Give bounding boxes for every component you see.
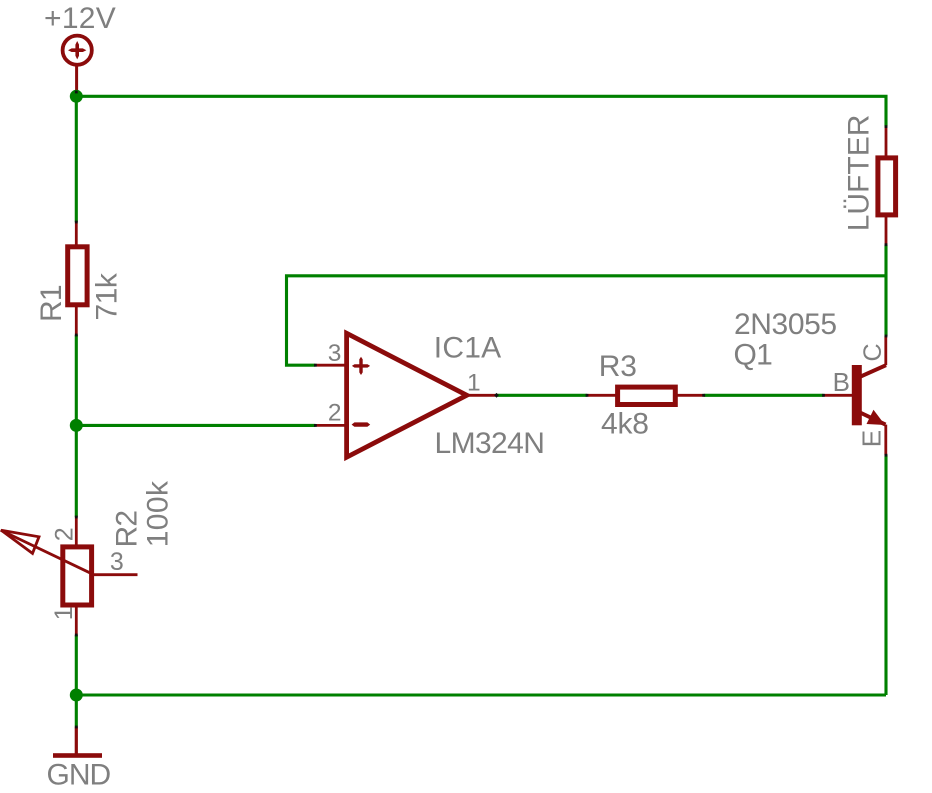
pin-end dot collector	[885, 335, 888, 338]
ground symbol GND	[53, 727, 102, 758]
svg-text:R2: R2	[111, 511, 144, 548]
svg-text:E: E	[857, 430, 887, 447]
junction node V+	[70, 90, 83, 103]
pin-end dot emitter	[885, 454, 888, 457]
wire left rail upper	[75, 96, 78, 222]
junction node ground rail	[70, 689, 83, 702]
pin-end dot fan top	[885, 125, 888, 128]
wire fan to collector	[884, 245, 887, 336]
pin-end dot R1 bottom	[75, 334, 78, 337]
wire R3 to base	[704, 394, 824, 397]
svg-text:2: 2	[50, 527, 78, 541]
pin-end dot fan bottom	[885, 243, 888, 246]
wire emitter to bottom rail	[884, 455, 887, 695]
svg-text:GND: GND	[47, 759, 111, 792]
svg-text:LM324N: LM324N	[435, 427, 545, 460]
svg-text:4k8: 4k8	[601, 408, 649, 441]
svg-text:Q1: Q1	[734, 339, 773, 372]
svg-text:2: 2	[328, 400, 342, 427]
wire top rail	[76, 96, 886, 126]
pin-end dot op-amp output	[494, 393, 499, 398]
svg-text:B: B	[833, 367, 850, 397]
pin-end dot R2 top	[75, 516, 78, 519]
supply symbol +12V	[63, 36, 92, 93]
svg-text:LÜFTER: LÜFTER	[843, 115, 876, 232]
svg-text:IC1A: IC1A	[434, 331, 502, 364]
wire feedback	[287, 276, 887, 365]
svg-text:2N3055: 2N3055	[734, 308, 837, 341]
resistor R1	[68, 222, 87, 335]
pin-end dot GND stub	[75, 726, 78, 729]
pin-end dot op-amp pin3	[314, 364, 317, 367]
svg-text:71k: 71k	[90, 272, 123, 320]
pin-end dot supply stub	[75, 91, 78, 94]
wire left rail lower	[75, 635, 78, 727]
svg-text:+12V: +12V	[44, 2, 116, 35]
fan load LUEFTER	[878, 127, 896, 245]
svg-text:1: 1	[467, 370, 481, 397]
svg-text:R3: R3	[599, 350, 637, 383]
wire left rail middle	[75, 335, 78, 517]
svg-text:100k: 100k	[142, 480, 175, 547]
pin-end dot base	[822, 394, 825, 397]
pin-end dot R1 top	[75, 221, 78, 224]
pin-end dot R3 right	[702, 394, 705, 397]
pin-end dot R2 bottom	[75, 634, 78, 637]
potentiometer R2	[1, 517, 138, 635]
resistor R3	[587, 387, 704, 404]
wire op-amp inverting input	[76, 424, 315, 427]
svg-text:R1: R1	[35, 285, 68, 322]
svg-text:3: 3	[110, 548, 124, 576]
pin-end dot op-amp pin2	[314, 424, 317, 427]
svg-text:1: 1	[50, 606, 78, 620]
svg-text:C: C	[859, 343, 887, 361]
transistor Q1 2N3055	[824, 336, 887, 455]
junction node inverting input	[70, 419, 83, 432]
wire bottom rail	[76, 693, 886, 696]
pin-end dot R3 left	[586, 394, 589, 397]
wire op-amp output to R3	[497, 394, 587, 397]
svg-text:3: 3	[328, 340, 342, 367]
op-amp U1 IC1A	[315, 333, 497, 457]
